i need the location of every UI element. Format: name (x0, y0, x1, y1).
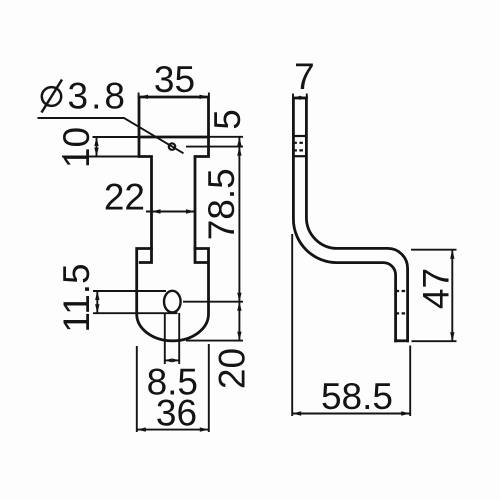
dim 35 extension stubs (139, 93, 209, 98)
arrowheads front view (94, 95, 241, 432)
dim 78.5 top arrow (237, 147, 241, 156)
svg-text:7: 7 (294, 56, 315, 97)
dim 35 arrows (139, 95, 148, 99)
side view hidden slot bottom (396, 312, 408, 314)
dim 36 extension lines (137, 344, 209, 432)
dim 5 arrows (237, 137, 241, 146)
svg-text:36: 36 (156, 393, 197, 434)
dim 58.5 extension lines (292, 234, 410, 416)
dim 11.5 line (96, 291, 98, 313)
dim 20 bottom arrow (237, 332, 241, 341)
dim 36 line (137, 429, 209, 431)
front view right tab hook (195, 249, 206, 263)
front view outline (137, 97, 209, 341)
dim 47 line (451, 250, 453, 342)
side view hidden hole top (293, 142, 306, 144)
dim 58.5 line (292, 413, 410, 415)
dim 8.5 line (165, 359, 179, 361)
dim 58.5 arrows (292, 411, 301, 415)
dim 78.5 bottom arrow (237, 293, 241, 302)
dim 22 arrows (152, 209, 161, 213)
bottom slot hole (164, 291, 181, 313)
dim 5 extension lines (186, 137, 243, 147)
dim 5/78.5/20 vertical line (238, 137, 240, 341)
svg-text:11.5: 11.5 (56, 263, 97, 332)
dim 7 extension stubs (293, 94, 307, 99)
side view bottom end edge (396, 339, 408, 342)
dim 11.5 extension lines (93, 291, 178, 313)
dim 20 top arrow (237, 302, 241, 311)
side view outer edge (293, 98, 395, 341)
svg-text:10: 10 (56, 127, 97, 168)
dim 36 arrows (137, 427, 146, 431)
dim 20 extension lines (183, 302, 243, 341)
dim 11.5 arrows (95, 291, 99, 300)
svg-text:3.8: 3.8 (68, 76, 128, 117)
top hole (169, 143, 175, 149)
side view hidden slot top (396, 290, 408, 292)
svg-text:47: 47 (415, 268, 456, 309)
svg-text:78.5: 78.5 (201, 168, 242, 240)
dim 10 arrows (94, 137, 98, 146)
dim phi3.8 leader (38, 118, 184, 153)
dim 8.5 extension lines (165, 313, 179, 364)
svg-text:5: 5 (207, 109, 248, 130)
front view flange bend line (139, 136, 209, 139)
dim 10 line (96, 137, 98, 157)
dim 47 extension lines (411, 250, 457, 342)
front view left tab hook (140, 249, 151, 263)
side view bend line upper (293, 135, 306, 137)
text phi3.8 (custom phi glyph) (42, 80, 63, 113)
side view inner edge (306, 98, 407, 341)
dim 10 extension lines (62, 137, 152, 157)
svg-text:58.5: 58.5 (321, 376, 393, 417)
dim 47 arrows (450, 250, 454, 259)
side view top edge (293, 97, 306, 100)
svg-text:22: 22 (104, 177, 145, 218)
svg-text:20: 20 (211, 348, 252, 389)
dim 8.5 arrows (165, 358, 172, 362)
side view hidden hole bottom (293, 149, 306, 151)
dim 7 arrows (293, 96, 300, 100)
svg-text:35: 35 (154, 59, 195, 100)
dim 22 line (146, 211, 195, 213)
side view bend line lower (293, 155, 306, 157)
